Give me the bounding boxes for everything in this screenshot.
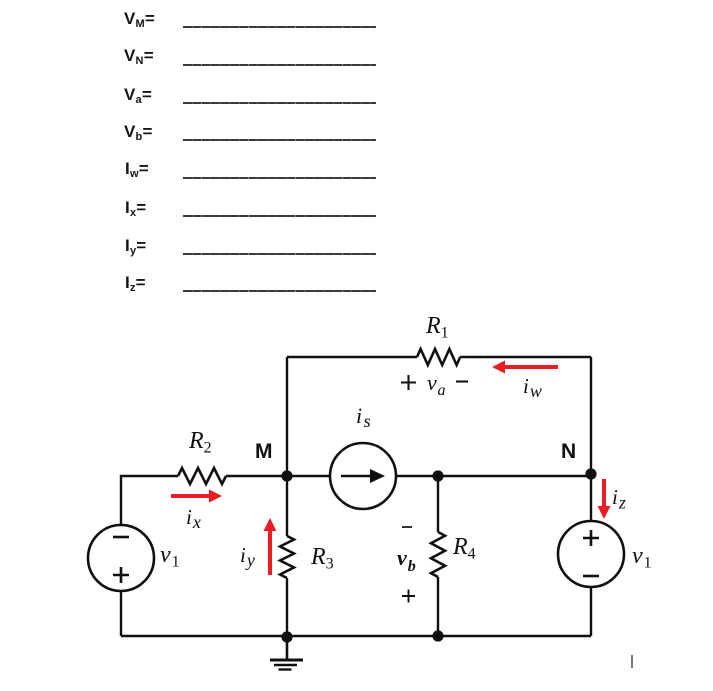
label minus sign of v_b <box>402 526 412 528</box>
svg-text:iw: iw <box>523 374 542 401</box>
label i_s <box>356 403 371 431</box>
answer line I_z <box>183 290 376 292</box>
label node N <box>561 440 576 463</box>
svg-text:iz: iz <box>612 485 626 513</box>
resistor R2 body <box>178 468 226 484</box>
wire: node N down to right source top terminal <box>590 474 592 521</box>
wire: left riser from top rail down to node M <box>286 357 288 476</box>
wire: node M to current source left terminal <box>287 475 330 477</box>
answer line V_M <box>183 26 376 28</box>
label v1 (right source) <box>632 543 652 572</box>
svg-text:R4: R4 <box>452 534 476 563</box>
answer label V_M <box>124 9 155 30</box>
answer label V_N <box>124 46 154 67</box>
answer line V_b <box>183 139 376 141</box>
label R4 <box>452 534 476 563</box>
answer line V_a <box>183 102 376 104</box>
voltage source v1 (right, plus top / minus bottom) <box>558 521 624 587</box>
label node M <box>255 440 273 463</box>
wire: R3 bottom lead to bottom rail <box>286 578 288 636</box>
resistor R3 body <box>280 536 294 578</box>
answer label I_y <box>125 236 146 257</box>
label R1 <box>425 313 449 342</box>
wire: left source top lead up to mid rail corner <box>121 476 178 525</box>
svg-text:v1: v1 <box>160 542 180 571</box>
resistor R1 body <box>417 349 460 365</box>
junction dot bottom of R4 <box>432 630 443 641</box>
current arrow i_y (red, pointing up) <box>264 518 277 575</box>
answer label I_w <box>125 159 149 180</box>
node N junction dot <box>585 468 596 479</box>
answer label V_b <box>124 122 153 143</box>
svg-text:ix: ix <box>186 505 201 532</box>
answer line I_y <box>183 253 376 255</box>
answer line I_x <box>183 215 376 217</box>
answer line I_w <box>183 177 376 179</box>
svg-text:R2: R2 <box>188 428 212 457</box>
label i_w <box>523 374 542 401</box>
svg-text:va: va <box>427 370 446 399</box>
wire: top rail right segment (R1 right lead to N riser corner) <box>460 356 591 358</box>
label i_x <box>186 505 201 532</box>
answer label V_a <box>124 85 152 106</box>
svg-text:R1: R1 <box>425 313 449 342</box>
svg-text:M: M <box>255 440 273 463</box>
wire: R4 bottom lead to bottom rail <box>437 577 439 636</box>
svg-text:vb: vb <box>397 545 416 575</box>
answer line V_N <box>183 64 376 66</box>
label i_y <box>240 543 255 570</box>
label v1 (left source) <box>160 542 180 571</box>
label R2 <box>188 428 212 457</box>
node junction dot at R4 top <box>432 470 443 481</box>
current arrow i_x (red, pointing right) <box>171 490 222 503</box>
wire: current source right terminal to node N <box>396 475 591 477</box>
node M junction dot <box>281 470 292 481</box>
label + va - (voltage across R1) <box>401 370 468 399</box>
current arrow i_z (red, pointing down) <box>598 479 611 519</box>
wire: bottom rail <box>121 635 591 637</box>
voltage source v1 (left, minus top / plus bottom) <box>88 525 154 591</box>
svg-text:is: is <box>356 403 371 431</box>
wire: top rail left segment (M riser top corner to R1 left lead) <box>287 356 417 358</box>
answer label I_z <box>125 273 146 294</box>
resistor R4 body <box>431 532 445 577</box>
current source i_s (circle with right arrow) <box>330 443 396 509</box>
wire: R2 right lead to node M <box>226 475 287 477</box>
current arrow i_w (red, pointing left) <box>492 361 558 374</box>
label R3 <box>310 544 334 573</box>
wire: node M down to R3 top lead <box>286 476 288 536</box>
svg-text:iy: iy <box>240 543 255 570</box>
label plus sign of v_b <box>402 590 415 603</box>
svg-text:N: N <box>561 440 576 463</box>
text cursor mark <box>631 655 633 668</box>
wire: R4 top node down to R4 body <box>437 476 439 532</box>
junction dot bottom of R3 / ground node <box>281 631 292 642</box>
wire: right riser from top rail down to node N <box>590 357 592 474</box>
answer label I_x <box>125 198 146 219</box>
label i_z <box>612 485 626 513</box>
svg-text:R3: R3 <box>310 544 334 573</box>
wire: right source bottom lead to bottom rail <box>590 587 592 636</box>
svg-text:v1: v1 <box>632 543 652 572</box>
wire: left source bottom lead to bottom rail <box>120 591 122 636</box>
ground symbol <box>270 637 303 670</box>
label v_b <box>397 545 416 575</box>
